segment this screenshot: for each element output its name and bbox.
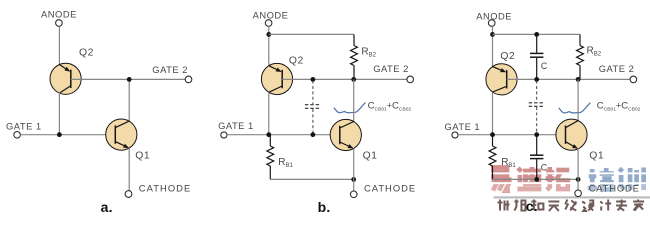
- junction dashed-branch/GATE2 (b): [311, 77, 316, 82]
- node GATE 2 terminal (c): [630, 76, 637, 83]
- junction Q1-collector/GATE2 (a): [127, 77, 132, 82]
- wire Q2 collector down (c): [492, 93, 494, 135]
- wire Q2 collector down to gate1 rail (a): [58, 92, 60, 135]
- resistor RB1 (b): [267, 135, 274, 180]
- svg-text:a.: a.: [101, 199, 113, 215]
- wire Q1 collector up (c): [577, 79, 579, 121]
- transistor Q1 (b): [330, 119, 361, 150]
- wire Q2 collector down (b): [268, 92, 270, 135]
- svg-text:Q1: Q1: [363, 150, 378, 161]
- junction RB2-Q1collector/GATE2 (b): [351, 77, 356, 82]
- junction dashed-capC/GATE1 (c): [534, 132, 539, 137]
- resistor RB2 (c): [577, 34, 584, 79]
- svg-text:GATE 2: GATE 2: [373, 63, 409, 74]
- transistor Q2 (a): [50, 63, 81, 94]
- node GATE 1 terminal (a): [14, 132, 21, 139]
- svg-text:ANODE: ANODE: [253, 10, 289, 21]
- svg-text:GATE 1: GATE 1: [6, 121, 42, 132]
- svg-text:C: C: [541, 61, 548, 71]
- node GATE 1 terminal (b): [221, 132, 227, 138]
- wire anode to Q2 emitter (a): [58, 26, 60, 65]
- junction cathode/bottom rail (c): [576, 177, 581, 182]
- node CATHODE terminal (b): [350, 191, 357, 198]
- junction anode/top rail (c): [490, 32, 495, 37]
- wire anode to Q2 emitter (c): [492, 26, 494, 66]
- node CATHODE terminal (a): [125, 191, 132, 198]
- resistor RB1 (c): [489, 135, 496, 180]
- wire Q1 emitter to cathode (c): [577, 148, 579, 190]
- wire GATE 2 rail (b): [282, 78, 407, 80]
- node GATE 2 terminal (a): [185, 76, 192, 83]
- svg-text:ANODE: ANODE: [476, 10, 512, 21]
- svg-text:GATE 1: GATE 1: [445, 121, 481, 132]
- junction Q2coll-RB1/GATE1 (c): [490, 132, 495, 137]
- svg-text:C: C: [541, 163, 548, 173]
- wire GATE 2 rail (c): [507, 78, 630, 80]
- wire bottom rail (b): [270, 178, 353, 180]
- capacitor CCB dashed (b): [305, 81, 321, 135]
- junction capC-top/top rail (c): [534, 32, 539, 37]
- junction capC-bottom/bottom rail (c): [534, 177, 539, 182]
- wire bottom rail (c): [493, 178, 579, 180]
- node ANODE terminal (c): [488, 20, 495, 27]
- wire Q1 collector up to gate2 rail (a): [128, 79, 130, 121]
- watermark logo text: [489, 167, 650, 199]
- node GATE 2 terminal (b): [407, 76, 414, 83]
- svg-text:c.: c.: [526, 198, 538, 214]
- junction Q2-collector/GATE1 (a): [57, 132, 62, 137]
- wire Q1 emitter to cathode (a): [128, 148, 130, 191]
- svg-text:GATE 2: GATE 2: [152, 64, 188, 75]
- capacitor CCB dashed (c): [529, 81, 545, 135]
- capacitor C bottom (c): [530, 135, 543, 180]
- wire GATE 1 rail (b): [227, 134, 341, 136]
- svg-text:CATHODE: CATHODE: [589, 182, 640, 193]
- svg-text:CATHODE: CATHODE: [139, 182, 192, 193]
- node GATE 1 terminal (c): [452, 132, 458, 138]
- capacitor C top (c): [530, 34, 543, 79]
- junction Q2coll-RB1/GATE1 (b): [266, 132, 271, 137]
- wire GATE 1 rail (c): [458, 134, 566, 136]
- svg-text:Q2: Q2: [79, 48, 94, 59]
- node CATHODE terminal (c): [575, 190, 582, 197]
- junction capC-dashed/GATE2 (c): [534, 77, 539, 82]
- svg-text:Q1: Q1: [589, 150, 604, 161]
- wire GATE 2 rail (a): [71, 78, 185, 80]
- resistor RB2 (b): [351, 34, 358, 79]
- node ANODE terminal (a): [56, 20, 63, 27]
- wire GATE 1 rail (a): [20, 134, 116, 136]
- wire top rail (c): [493, 33, 581, 35]
- svg-text:Q2: Q2: [289, 55, 304, 66]
- transistor Q2 (b): [261, 63, 292, 94]
- junction dashed-branch/GATE1 (b): [311, 132, 316, 137]
- junction anode/top rail (b): [266, 32, 271, 37]
- svg-text:CATHODE: CATHODE: [364, 183, 416, 194]
- wire top rail (b): [269, 33, 354, 35]
- svg-text:GATE 1: GATE 1: [218, 120, 254, 131]
- junction RB2-Q1coll/GATE2 (c): [576, 77, 581, 82]
- node ANODE terminal (b): [265, 20, 272, 27]
- svg-text:Q1: Q1: [135, 150, 150, 161]
- transistor Q1 (c): [556, 119, 587, 150]
- pointer squiggle (c): [559, 103, 591, 113]
- transistor Q1 (a): [106, 119, 137, 150]
- wire Q1 emitter to cathode (b): [353, 148, 355, 191]
- svg-text:b.: b.: [318, 199, 331, 215]
- pointer squiggle (b): [334, 102, 366, 112]
- svg-text:GATE 2: GATE 2: [599, 63, 635, 74]
- wire anode to Q2 emitter (b): [268, 26, 270, 65]
- transistor Q2 (c): [486, 64, 517, 95]
- svg-text:ANODE: ANODE: [41, 9, 77, 20]
- wire Q1 collector up (b): [353, 79, 355, 121]
- svg-text:Q2: Q2: [500, 51, 515, 62]
- junction cathode/bottom rail (b): [351, 177, 356, 182]
- watermark slogan text: [498, 200, 645, 212]
